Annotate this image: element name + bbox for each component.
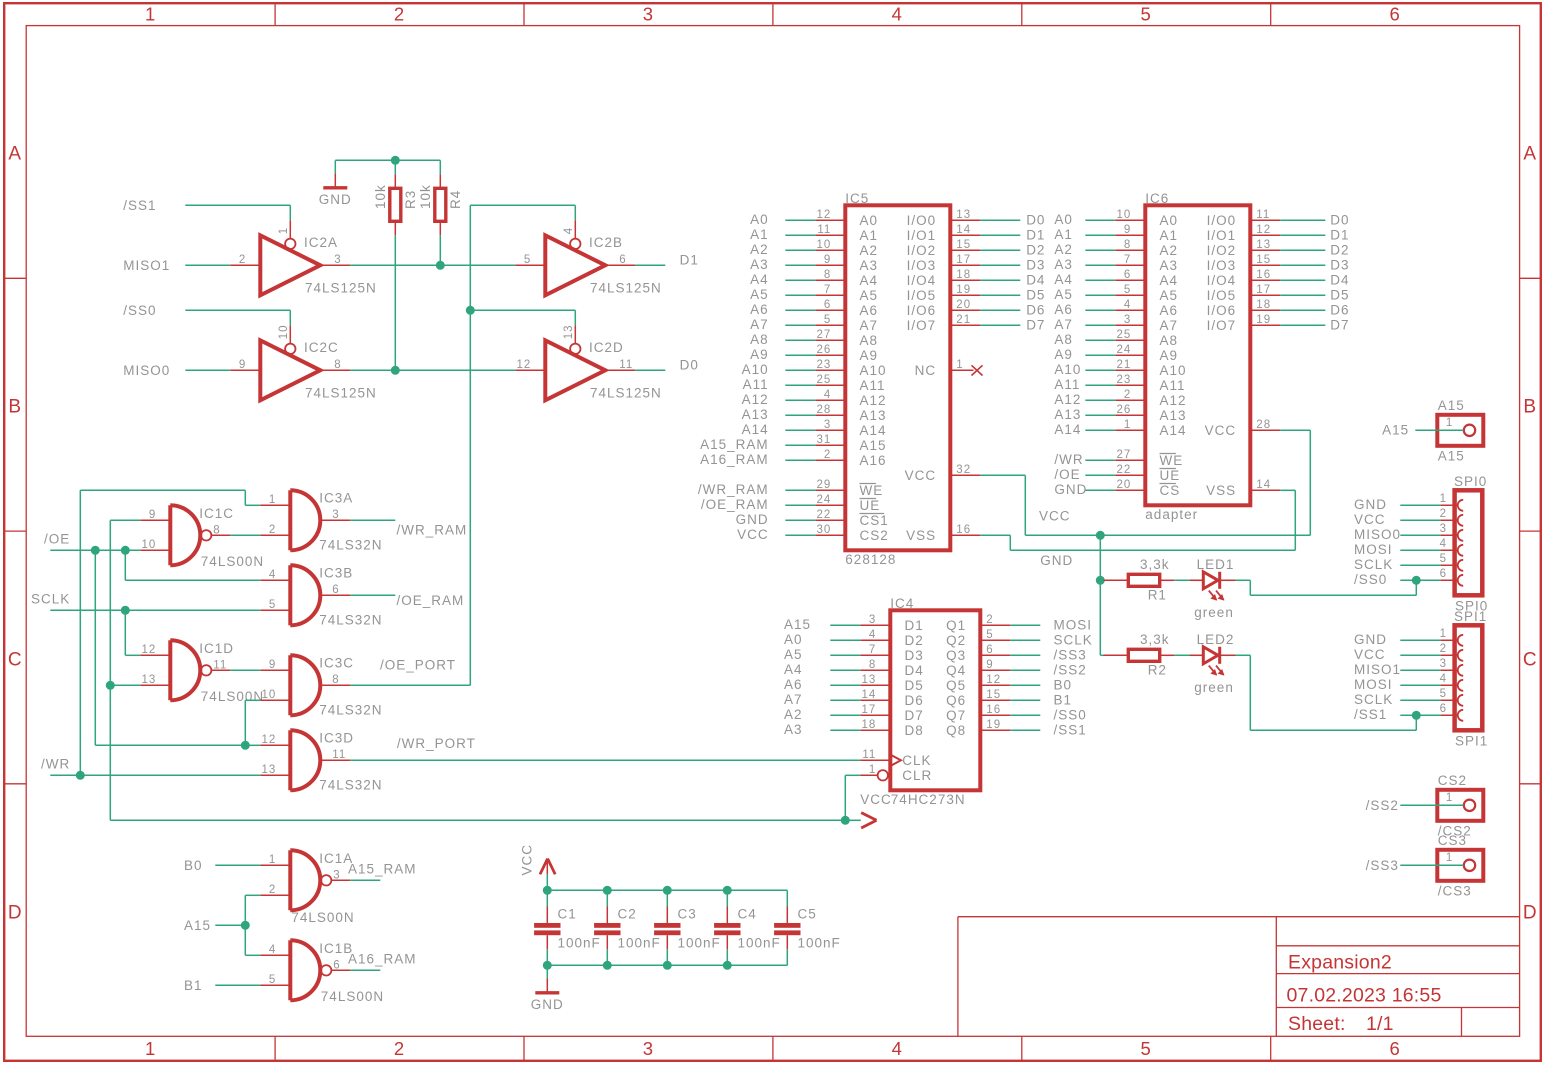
svg-text:IC3C: IC3C: [319, 656, 354, 671]
svg-text:C1: C1: [558, 907, 577, 922]
svg-text:I/O5: I/O5: [907, 288, 937, 303]
svg-text:SCLK: SCLK: [1054, 633, 1093, 648]
svg-text:1: 1: [145, 1038, 156, 1059]
svg-text:23: 23: [1117, 374, 1132, 386]
svg-text:MISO0: MISO0: [123, 363, 170, 378]
svg-text:628128: 628128: [845, 552, 896, 567]
svg-text:IC2D: IC2D: [589, 340, 624, 355]
svg-text:IC1C: IC1C: [199, 506, 234, 521]
svg-text:MOSI: MOSI: [1354, 542, 1393, 557]
svg-text:A5: A5: [1160, 288, 1179, 303]
svg-text:1: 1: [1446, 852, 1453, 864]
svg-text:12: 12: [262, 734, 277, 746]
svg-text:D5: D5: [1330, 288, 1349, 303]
svg-text:A14: A14: [1160, 423, 1187, 438]
svg-text:D3: D3: [905, 648, 924, 663]
svg-text:A1: A1: [750, 227, 769, 242]
svg-text:74LS32N: 74LS32N: [319, 612, 382, 627]
svg-text:74LS00N: 74LS00N: [291, 910, 354, 925]
svg-text:WE: WE: [860, 483, 884, 498]
svg-text:15: 15: [1256, 254, 1271, 266]
svg-text:4: 4: [563, 227, 575, 234]
svg-text:4: 4: [1124, 299, 1131, 311]
svg-text:I/O1: I/O1: [1207, 228, 1237, 243]
svg-text:D0: D0: [680, 358, 699, 373]
svg-text:A4: A4: [1160, 273, 1179, 288]
svg-text:A7: A7: [1054, 317, 1073, 332]
svg-text:A13: A13: [1054, 407, 1081, 422]
svg-text:3: 3: [333, 869, 340, 881]
svg-text:/WR_RAM: /WR_RAM: [698, 482, 769, 497]
svg-text:A9: A9: [1054, 347, 1073, 362]
svg-text:5: 5: [1124, 284, 1131, 296]
svg-text:11: 11: [1256, 209, 1270, 221]
svg-text:9: 9: [149, 509, 156, 521]
svg-text:CLR: CLR: [902, 768, 932, 783]
svg-text:A0: A0: [860, 213, 879, 228]
svg-text:A10: A10: [742, 362, 769, 377]
svg-text:3: 3: [643, 1038, 654, 1059]
svg-text:31: 31: [817, 434, 832, 446]
svg-text:13: 13: [262, 764, 277, 776]
svg-text:5: 5: [824, 314, 831, 326]
svg-text:3: 3: [869, 614, 876, 626]
svg-text:IC2A: IC2A: [304, 235, 338, 250]
svg-text:A8: A8: [1054, 332, 1073, 347]
svg-text:1: 1: [1446, 792, 1453, 804]
svg-text:22: 22: [817, 509, 832, 521]
svg-text:30: 30: [817, 524, 832, 536]
svg-text:/WR: /WR: [1054, 452, 1083, 467]
svg-text:D8: D8: [905, 723, 924, 738]
svg-text:18: 18: [862, 719, 877, 731]
svg-text:GND: GND: [1354, 497, 1387, 512]
svg-text:A15: A15: [184, 918, 211, 933]
svg-text:100nF: 100nF: [798, 935, 841, 950]
svg-text:13: 13: [563, 325, 575, 340]
svg-text:Q3: Q3: [946, 648, 966, 663]
svg-text:D7: D7: [1026, 318, 1045, 333]
svg-text:A12: A12: [1054, 392, 1081, 407]
svg-text:LED2: LED2: [1197, 632, 1235, 647]
svg-text:CS2: CS2: [1438, 773, 1467, 788]
svg-text:R1: R1: [1148, 588, 1167, 603]
svg-text:100nF: 100nF: [618, 935, 661, 950]
svg-text:IC3A: IC3A: [319, 491, 353, 506]
svg-text:26: 26: [1117, 404, 1132, 416]
svg-text:28: 28: [1256, 419, 1271, 431]
svg-text:/OE_RAM: /OE_RAM: [701, 497, 769, 512]
svg-text:5: 5: [1141, 4, 1152, 25]
svg-text:10k: 10k: [373, 184, 388, 209]
svg-text:Expansion2: Expansion2: [1288, 952, 1392, 974]
svg-text:A8: A8: [750, 332, 769, 347]
svg-text:3,3k: 3,3k: [1140, 632, 1170, 647]
svg-text:R3: R3: [403, 190, 418, 209]
svg-text:MISO1: MISO1: [123, 258, 170, 273]
svg-text:/OE: /OE: [1054, 467, 1080, 482]
svg-text:A: A: [1523, 143, 1537, 164]
svg-text:74LS125N: 74LS125N: [590, 385, 662, 400]
svg-text:MISO1: MISO1: [1354, 662, 1401, 677]
svg-text:74LS00N: 74LS00N: [201, 689, 264, 704]
svg-text:3: 3: [1440, 658, 1447, 670]
svg-text:11: 11: [213, 659, 227, 671]
svg-text:10: 10: [817, 239, 832, 251]
svg-text:2: 2: [269, 524, 276, 536]
svg-text:A3: A3: [1160, 258, 1179, 273]
svg-text:I/O3: I/O3: [907, 258, 937, 273]
svg-text:Q2: Q2: [946, 633, 966, 648]
svg-text:I/O6: I/O6: [907, 303, 937, 318]
svg-text:MOSI: MOSI: [1354, 677, 1393, 692]
svg-text:D3: D3: [1026, 258, 1045, 273]
svg-text:5: 5: [1141, 1038, 1152, 1059]
svg-text:/SS1: /SS1: [123, 198, 156, 213]
svg-text:2: 2: [1124, 389, 1131, 401]
svg-text:I/O7: I/O7: [1207, 318, 1237, 333]
svg-text:A2: A2: [784, 707, 803, 722]
svg-text:D0: D0: [1026, 213, 1045, 228]
svg-text:A16: A16: [860, 453, 887, 468]
svg-text:D6: D6: [905, 693, 924, 708]
svg-text:A0: A0: [1054, 212, 1073, 227]
svg-text:5: 5: [524, 254, 531, 266]
svg-text:6: 6: [1124, 269, 1131, 281]
svg-text:21: 21: [1117, 359, 1132, 371]
svg-text:I/O7: I/O7: [907, 318, 937, 333]
svg-text:SPI0: SPI0: [1454, 474, 1487, 489]
svg-text:74LS32N: 74LS32N: [319, 777, 382, 792]
svg-text:14: 14: [1256, 479, 1271, 491]
svg-text:100nF: 100nF: [678, 935, 721, 950]
svg-text:9: 9: [269, 659, 276, 671]
svg-text:/SS0: /SS0: [1054, 708, 1087, 723]
svg-text:SCLK: SCLK: [1354, 557, 1393, 572]
svg-text:A0: A0: [784, 632, 803, 647]
svg-text:5: 5: [269, 974, 276, 986]
svg-text:9: 9: [239, 359, 246, 371]
svg-text:A11: A11: [1054, 377, 1080, 392]
svg-text:A2: A2: [1054, 242, 1073, 257]
svg-text:11: 11: [862, 749, 876, 761]
svg-text:26: 26: [817, 344, 832, 356]
svg-text:NC: NC: [915, 363, 937, 378]
svg-text:25: 25: [817, 374, 832, 386]
svg-text:I/O2: I/O2: [907, 243, 937, 258]
svg-text:A1: A1: [1160, 228, 1179, 243]
svg-text:8: 8: [334, 359, 341, 371]
svg-text:/SS2: /SS2: [1366, 798, 1399, 813]
svg-text:B: B: [1523, 396, 1537, 417]
svg-text:D6: D6: [1330, 303, 1349, 318]
svg-text:A14: A14: [742, 422, 769, 437]
svg-text:B1: B1: [1054, 693, 1073, 708]
svg-text:12: 12: [986, 674, 1001, 686]
svg-text:CS3: CS3: [1438, 833, 1467, 848]
svg-text:7: 7: [1124, 254, 1131, 266]
svg-text:11: 11: [619, 359, 633, 371]
svg-text:A1: A1: [1054, 227, 1073, 242]
svg-text:MISO0: MISO0: [1354, 527, 1401, 542]
svg-text:UE: UE: [860, 498, 881, 513]
svg-text:8: 8: [824, 269, 831, 281]
svg-text:D4: D4: [1330, 273, 1349, 288]
svg-text:18: 18: [1256, 299, 1271, 311]
svg-text:100nF: 100nF: [558, 935, 601, 950]
svg-text:/OE: /OE: [44, 532, 70, 547]
svg-text:/SS1: /SS1: [1054, 723, 1087, 738]
svg-text:16: 16: [986, 704, 1001, 716]
svg-text:IC5: IC5: [845, 191, 869, 206]
svg-text:/SS0: /SS0: [123, 303, 156, 318]
svg-text:5: 5: [986, 629, 993, 641]
svg-text:A10: A10: [1160, 363, 1187, 378]
svg-text:D7: D7: [905, 708, 924, 723]
svg-text:A3: A3: [860, 258, 879, 273]
svg-text:MOSI: MOSI: [1054, 618, 1093, 633]
svg-text:A4: A4: [750, 272, 769, 287]
svg-text:A2: A2: [750, 242, 769, 257]
svg-text:20: 20: [1117, 479, 1132, 491]
svg-text:12: 12: [1256, 224, 1271, 236]
svg-text:12: 12: [817, 209, 832, 221]
svg-text:A14: A14: [1054, 422, 1081, 437]
svg-text:Q8: Q8: [946, 723, 966, 738]
svg-text:74HC273N: 74HC273N: [891, 792, 966, 807]
svg-text:I/O1: I/O1: [907, 228, 937, 243]
svg-text:D1: D1: [680, 253, 699, 268]
svg-text:15: 15: [986, 689, 1001, 701]
svg-text:I/O0: I/O0: [907, 213, 937, 228]
svg-text:green: green: [1194, 605, 1234, 620]
svg-text:1: 1: [1446, 417, 1453, 429]
svg-text:3: 3: [1440, 523, 1447, 535]
svg-text:D5: D5: [905, 678, 924, 693]
svg-text:4: 4: [869, 629, 876, 641]
svg-text:A9: A9: [1160, 348, 1179, 363]
svg-text:3: 3: [1124, 314, 1131, 326]
svg-text:C: C: [1523, 649, 1538, 670]
svg-text:A12: A12: [1160, 393, 1187, 408]
svg-text:74LS125N: 74LS125N: [305, 385, 377, 400]
svg-text:2: 2: [239, 254, 246, 266]
svg-text:A9: A9: [750, 347, 769, 362]
svg-text:A10: A10: [1054, 362, 1081, 377]
svg-text:100nF: 100nF: [738, 935, 781, 950]
svg-text:2: 2: [394, 4, 405, 25]
svg-text:/SS3: /SS3: [1054, 648, 1087, 663]
svg-text:6: 6: [619, 254, 626, 266]
svg-text:I/O6: I/O6: [1207, 303, 1237, 318]
svg-text:7: 7: [869, 644, 876, 656]
svg-text:25: 25: [1117, 329, 1132, 341]
svg-text:A0: A0: [1160, 213, 1179, 228]
svg-text:74LS125N: 74LS125N: [305, 280, 377, 295]
svg-text:CS: CS: [1160, 483, 1181, 498]
svg-text:D4: D4: [1026, 273, 1045, 288]
svg-text:4: 4: [269, 944, 276, 956]
svg-text:32: 32: [956, 464, 971, 476]
svg-text:18: 18: [956, 269, 971, 281]
svg-text:A7: A7: [750, 317, 769, 332]
svg-text:24: 24: [817, 494, 832, 506]
svg-text:5: 5: [269, 599, 276, 611]
svg-text:9: 9: [824, 254, 831, 266]
svg-text:VCC: VCC: [905, 468, 937, 483]
svg-text:D5: D5: [1026, 288, 1045, 303]
svg-text:14: 14: [956, 224, 971, 236]
svg-text:17: 17: [1256, 284, 1271, 296]
svg-text:6: 6: [986, 644, 993, 656]
svg-text:R2: R2: [1148, 663, 1167, 678]
svg-text:10: 10: [142, 539, 157, 551]
svg-text:A15_RAM: A15_RAM: [700, 437, 769, 452]
svg-text:1: 1: [956, 359, 963, 371]
svg-text:A6: A6: [750, 302, 769, 317]
svg-text:C: C: [8, 649, 23, 670]
svg-text:I/O4: I/O4: [1207, 273, 1237, 288]
svg-text:2: 2: [986, 614, 993, 626]
svg-text:D1: D1: [1330, 228, 1349, 243]
svg-text:VCC: VCC: [520, 844, 535, 876]
svg-text:6: 6: [332, 584, 339, 596]
svg-text:Q5: Q5: [946, 678, 966, 693]
svg-text:15: 15: [956, 239, 971, 251]
svg-text:D4: D4: [905, 663, 924, 678]
svg-text:8: 8: [1124, 239, 1131, 251]
svg-text:GND: GND: [1054, 482, 1087, 497]
svg-text:A: A: [8, 143, 22, 164]
svg-text:8: 8: [332, 674, 339, 686]
svg-text:1: 1: [278, 227, 290, 234]
svg-text:20: 20: [956, 299, 971, 311]
svg-text:6: 6: [333, 959, 340, 971]
svg-text:A15: A15: [1382, 423, 1409, 438]
svg-text:I/O4: I/O4: [907, 273, 937, 288]
svg-text:4: 4: [269, 569, 276, 581]
svg-text:IC6: IC6: [1145, 191, 1169, 206]
svg-text:D2: D2: [905, 633, 924, 648]
svg-text:6: 6: [1440, 568, 1447, 580]
svg-text:IC3B: IC3B: [319, 566, 353, 581]
svg-text:4: 4: [1440, 538, 1447, 550]
svg-text:B0: B0: [1054, 678, 1073, 693]
svg-text:D: D: [1523, 902, 1538, 923]
svg-text:A3: A3: [750, 257, 769, 272]
svg-text:9: 9: [1124, 224, 1131, 236]
svg-text:C4: C4: [738, 907, 757, 922]
svg-text:GND: GND: [1354, 632, 1387, 647]
svg-text:Q6: Q6: [946, 693, 966, 708]
svg-text:A14: A14: [860, 423, 887, 438]
svg-text:29: 29: [817, 479, 832, 491]
svg-text:A1: A1: [860, 228, 879, 243]
svg-text:SCLK: SCLK: [31, 592, 70, 607]
svg-text:D7: D7: [1330, 318, 1349, 333]
svg-text:CS1: CS1: [860, 513, 889, 528]
svg-text:A16_RAM: A16_RAM: [700, 452, 769, 467]
svg-text:8: 8: [213, 524, 220, 536]
svg-text:Sheet:: Sheet:: [1288, 1013, 1346, 1035]
svg-text:WE: WE: [1160, 453, 1184, 468]
svg-text:14: 14: [862, 689, 877, 701]
svg-text:5: 5: [1440, 553, 1447, 565]
svg-text:D3: D3: [1330, 258, 1349, 273]
svg-text:A10: A10: [860, 363, 887, 378]
svg-text:/SS3: /SS3: [1366, 858, 1399, 873]
svg-text:IC2C: IC2C: [304, 340, 339, 355]
svg-text:A8: A8: [1160, 333, 1179, 348]
svg-text:4: 4: [892, 1038, 903, 1059]
svg-text:C2: C2: [618, 907, 637, 922]
svg-text:1: 1: [269, 854, 276, 866]
svg-text:SPI1: SPI1: [1455, 733, 1488, 748]
svg-text:3: 3: [643, 4, 654, 25]
svg-text:VSS: VSS: [906, 528, 936, 543]
svg-text:A15: A15: [784, 617, 811, 632]
svg-text:A11: A11: [1160, 378, 1186, 393]
svg-text:10: 10: [278, 325, 290, 340]
svg-text:22: 22: [1117, 464, 1132, 476]
svg-text:C3: C3: [678, 907, 697, 922]
svg-text:2: 2: [824, 449, 831, 461]
svg-text:A6: A6: [784, 677, 803, 692]
svg-text:A13: A13: [1160, 408, 1187, 423]
svg-text:A3: A3: [784, 722, 803, 737]
svg-text:IC2B: IC2B: [589, 235, 623, 250]
svg-text:IC3D: IC3D: [319, 731, 354, 746]
svg-text:A11: A11: [860, 378, 886, 393]
svg-text:I/O0: I/O0: [1207, 213, 1237, 228]
svg-text:IC1D: IC1D: [199, 641, 234, 656]
svg-text:/SS2: /SS2: [1054, 663, 1087, 678]
svg-text:23: 23: [817, 359, 832, 371]
svg-text:6: 6: [1389, 1038, 1400, 1059]
svg-text:A4: A4: [860, 273, 879, 288]
svg-text:A13: A13: [742, 407, 769, 422]
svg-text:D: D: [8, 902, 23, 923]
svg-text:2: 2: [1440, 508, 1447, 520]
svg-text:D2: D2: [1026, 243, 1045, 258]
svg-text:74LS00N: 74LS00N: [201, 554, 264, 569]
svg-text:/WR_RAM: /WR_RAM: [397, 523, 468, 538]
svg-text:27: 27: [817, 329, 832, 341]
svg-text:1: 1: [1440, 493, 1447, 505]
svg-text:3: 3: [824, 419, 831, 431]
svg-text:6: 6: [1389, 4, 1400, 25]
svg-text:74LS125N: 74LS125N: [590, 280, 662, 295]
svg-text:adapter: adapter: [1145, 507, 1198, 522]
svg-text:A2: A2: [860, 243, 879, 258]
svg-text:R4: R4: [448, 190, 463, 209]
svg-text:LED1: LED1: [1197, 557, 1235, 572]
svg-text:VCC: VCC: [1205, 423, 1237, 438]
svg-text:UE: UE: [1160, 468, 1181, 483]
svg-text:4: 4: [824, 389, 831, 401]
svg-text:A12: A12: [860, 393, 887, 408]
svg-text:A3: A3: [1054, 257, 1073, 272]
svg-text:A2: A2: [1160, 243, 1179, 258]
svg-text:IC4: IC4: [890, 596, 914, 611]
svg-text:VCC: VCC: [860, 792, 892, 807]
svg-text:1: 1: [1440, 628, 1447, 640]
svg-text:GND: GND: [736, 512, 769, 527]
svg-text:CS2: CS2: [860, 528, 889, 543]
svg-text:8: 8: [869, 659, 876, 671]
svg-text:1: 1: [869, 764, 876, 776]
svg-text:/WR_PORT: /WR_PORT: [397, 736, 476, 751]
